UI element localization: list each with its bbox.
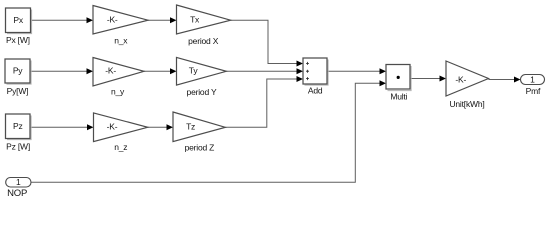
svg-text:Add: Add	[308, 85, 323, 95]
svg-text:Py[W]: Py[W]	[7, 86, 29, 96]
svg-text:Py: Py	[13, 66, 23, 76]
svg-text:Tz: Tz	[186, 122, 195, 132]
svg-text:Pz [W]: Pz [W]	[6, 142, 30, 152]
svg-text:NOP: NOP	[7, 188, 27, 199]
svg-text:-K-: -K-	[455, 75, 466, 85]
svg-text:Multi: Multi	[390, 92, 407, 102]
svg-text:-K-: -K-	[107, 15, 118, 25]
svg-text:-K-: -K-	[105, 66, 116, 76]
svg-text:Ty: Ty	[189, 66, 199, 76]
svg-text:1: 1	[530, 74, 535, 84]
svg-text:n_x: n_x	[114, 36, 128, 46]
svg-text:1: 1	[16, 177, 21, 187]
svg-text:Pmf: Pmf	[526, 86, 541, 96]
svg-text:period Z: period Z	[185, 142, 215, 152]
svg-text:Unit[kWh]: Unit[kWh]	[449, 99, 484, 109]
svg-text:Px [W]: Px [W]	[6, 35, 30, 45]
svg-text:period Y: period Y	[187, 87, 217, 97]
svg-text:-K-: -K-	[107, 122, 118, 132]
svg-text:Pz: Pz	[13, 121, 23, 131]
svg-text:n_y: n_y	[111, 87, 125, 97]
svg-text:period X: period X	[188, 36, 219, 46]
svg-text:Px: Px	[13, 15, 23, 25]
svg-text:Tx: Tx	[190, 15, 200, 25]
svg-text:n_z: n_z	[114, 142, 127, 152]
